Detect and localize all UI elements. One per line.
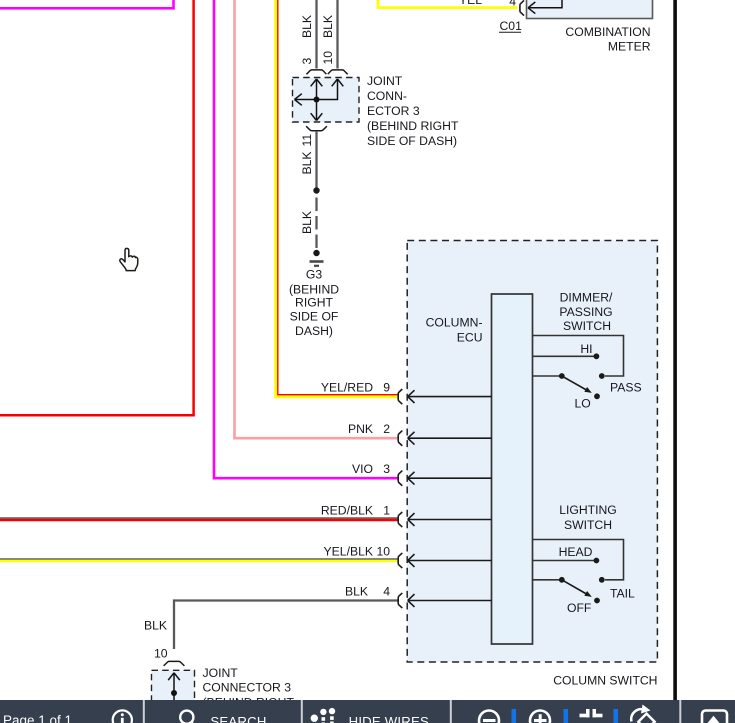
toolbar background [0,700,735,723]
toolbar hide-wires icon [311,708,336,723]
svg-text:ECU: ECU [457,331,483,345]
dimmer PASS dot [599,373,605,379]
svg-text:(BEHIND: (BEHIND [289,283,339,297]
svg-text:Page 1 of 1: Page 1 of 1 [3,713,72,723]
toolbar blue separator 2 [564,709,569,723]
dimmer HI dot [594,353,600,359]
lighting TAIL dot [599,577,605,583]
svg-text:CONNECTOR 3: CONNECTOR 3 [203,681,292,695]
JC3 internal left arrow [295,94,317,106]
wire RED vertical to left edge [0,0,194,415]
toolbar zoom-in icon [530,711,550,723]
svg-text:BLK: BLK [321,15,335,38]
text COLUMN-ECU [426,316,483,345]
toolbar blue separator 3 [614,709,619,723]
svg-text:HIDE WIRES: HIDE WIRES [349,714,429,723]
lighting switch wiper arrow [562,580,592,597]
svg-text:RIGHT: RIGHT [295,296,333,310]
connector arc pin 3 (joint connector 3 top) [306,70,326,74]
svg-text:G3: G3 [306,268,322,282]
svg-text:METER: METER [608,40,651,54]
connector row pin 9: arc + arrow into ECU [398,389,491,404]
wire RED/BLK to column switch pin 1 [0,518,399,520]
svg-text:SIDE OF DASH): SIDE OF DASH) [367,134,457,148]
svg-text:TAIL: TAIL [610,586,635,600]
connector arc pin 10 (joint connector 3 top) [328,70,348,74]
text JOINT CONNECTOR 3 (BEHIND RIGHT SIDE OF DASH) [367,74,459,148]
svg-text:PASSING: PASSING [559,305,612,319]
svg-text:SWITCH: SWITCH [564,518,612,532]
svg-text:C01: C01 [500,19,523,33]
svg-text:11: 11 [300,134,314,147]
JC3 junction dot [314,97,320,103]
svg-text:HEAD: HEAD [559,545,593,559]
lighting pivot dot [559,577,565,583]
svg-text:LO: LO [575,396,591,410]
label 10 BLK (rotated) [321,15,335,65]
svg-text:4: 4 [383,584,390,598]
connector row pin 4: arc + arrow into ECU [398,593,491,608]
text COMBINATION METER [565,25,650,54]
svg-text:COMBINATION: COMBINATION [565,25,650,39]
JC3 internal wire 2 with up arrow [317,79,344,100]
connector arc C01 [520,0,524,15]
connector arc below JC3 (pin 11) [306,126,327,131]
text JOINT CONNECTOR 3 (bottom) [203,666,295,710]
toolbar search icon [180,711,195,723]
wire BLK to column switch pin 4 [174,601,399,650]
svg-text:BLK: BLK [345,584,368,598]
wire VIO (magenta) to column switch pin 3 [214,0,399,478]
svg-text:HI: HI [580,342,592,356]
text LIGHTING SWITCH [559,503,617,532]
wire BLK top 1 (to joint connector pin 3) [315,0,317,69]
wire PNK to column switch pin 2 [235,0,399,438]
toolbar blue separator 1 [512,709,517,723]
dimmer switch wiper arrow [562,376,592,393]
svg-text:3: 3 [300,58,314,65]
svg-text:BLK: BLK [300,15,314,38]
label BLK (rotated, dashed segment) [300,211,314,234]
lighting switch: HEAD/TAIL contact path [533,540,624,580]
diagram page border (right) [673,0,677,700]
wire BLK dashed (to ground) [315,198,317,250]
connector row pin 2: arc + arrow into ECU [398,431,491,446]
joint connector JC3 top box [293,78,360,123]
JC3 internal wire 1 with up arrow [311,79,323,100]
arrow into combination meter [528,0,562,14]
mouse cursor (hand pointer) [120,248,138,270]
svg-text:DIMMER/: DIMMER/ [560,291,613,305]
svg-text:SEARCH: SEARCH [210,714,266,723]
junction dot on BLK wire [313,187,319,193]
dimmer LO dot [594,393,600,399]
svg-text:CONN-: CONN- [367,89,407,103]
svg-text:PASS: PASS [610,380,642,394]
wire YEL to combination meter C01 [378,0,518,8]
svg-text:JOINT: JOINT [203,666,239,680]
lighting HEAD dot [594,558,600,564]
connector row pin 3: arc + arrow into ECU [398,471,491,486]
svg-text:DASH): DASH) [295,324,333,338]
ground G3 symbol [310,250,324,266]
lighting OFF dot [594,598,600,604]
svg-text:4: 4 [509,0,516,9]
svg-text:ECTOR 3: ECTOR 3 [367,104,420,118]
toolbar zoom-out icon [479,711,499,723]
svg-text:BLK: BLK [144,618,167,632]
svg-text:(BEHIND RIGHT: (BEHIND RIGHT [367,119,459,133]
svg-text:SIDE OF: SIDE OF [290,310,339,324]
svg-text:1: 1 [383,503,390,517]
svg-text:10: 10 [376,544,390,558]
connector row pin 10: arc + arrow into ECU [398,553,491,568]
column-ECU rectangle [492,294,533,644]
label 3 BLK (rotated) [300,15,314,65]
svg-text:PNK: PNK [348,422,373,436]
toolbar separator 3 [450,700,452,723]
svg-text:LIGHTING: LIGHTING [559,503,617,517]
dimmer switch: HI/PASS contact path [533,336,624,377]
svg-text:BLK: BLK [300,211,314,234]
toolbar expand icon [702,711,727,723]
toolbar separator 2 [301,700,303,723]
svg-text:10: 10 [321,51,335,65]
svg-text:YEL/RED: YEL/RED [321,380,373,394]
svg-text:10: 10 [154,647,168,661]
svg-text:SWITCH: SWITCH [563,319,611,333]
svg-text:2: 2 [383,422,390,436]
svg-text:COLUMN-: COLUMN- [426,316,483,330]
wire MAGENTA L-turn top-left [0,0,174,8]
column switch dashed box [407,241,657,663]
svg-text:COLUMN SWITCH: COLUMN SWITCH [553,674,657,688]
dimmer pivot dot [559,373,565,379]
JC3 internal down arrow [311,100,323,121]
toolbar info icon [113,710,132,723]
svg-text:JOINT: JOINT [367,74,403,88]
connector arc pin 10 (bottom joint connector) [164,661,185,666]
svg-text:OFF: OFF [567,601,591,615]
toolbar separator 1 [143,700,145,723]
wire YEL/BLK to column switch pin 10 [0,559,399,561]
svg-text:YEL: YEL [459,0,482,7]
svg-text:BLK: BLK [300,151,314,174]
combination meter box [527,0,653,19]
wire YEL/RED to column switch pin 9 [276,0,399,397]
svg-text:9: 9 [383,380,390,394]
text DIMMER/PASSING SWITCH [559,291,613,334]
svg-text:3: 3 [383,462,390,476]
text G3 (BEHIND RIGHT SIDE OF DASH) [289,268,339,339]
toolbar separator 4 [679,700,681,723]
svg-text:VIO: VIO [352,462,373,476]
toolbar fit-screen icon [580,709,603,717]
wire BLK top 2 (to joint connector pin 10) [336,0,338,69]
toolbar rotate icon [631,705,654,723]
joint connector 3 bottom box [152,670,195,723]
label BLK 11 (rotated) [300,134,314,175]
connector row pin 1: arc + arrow into ECU [398,512,491,527]
bottom JC3 internal up arrow and dot [168,673,180,700]
wire BLK 11 (below JC3) [315,131,317,190]
svg-text:RED/BLK: RED/BLK [321,503,373,517]
svg-text:YEL/BLK: YEL/BLK [324,544,373,558]
